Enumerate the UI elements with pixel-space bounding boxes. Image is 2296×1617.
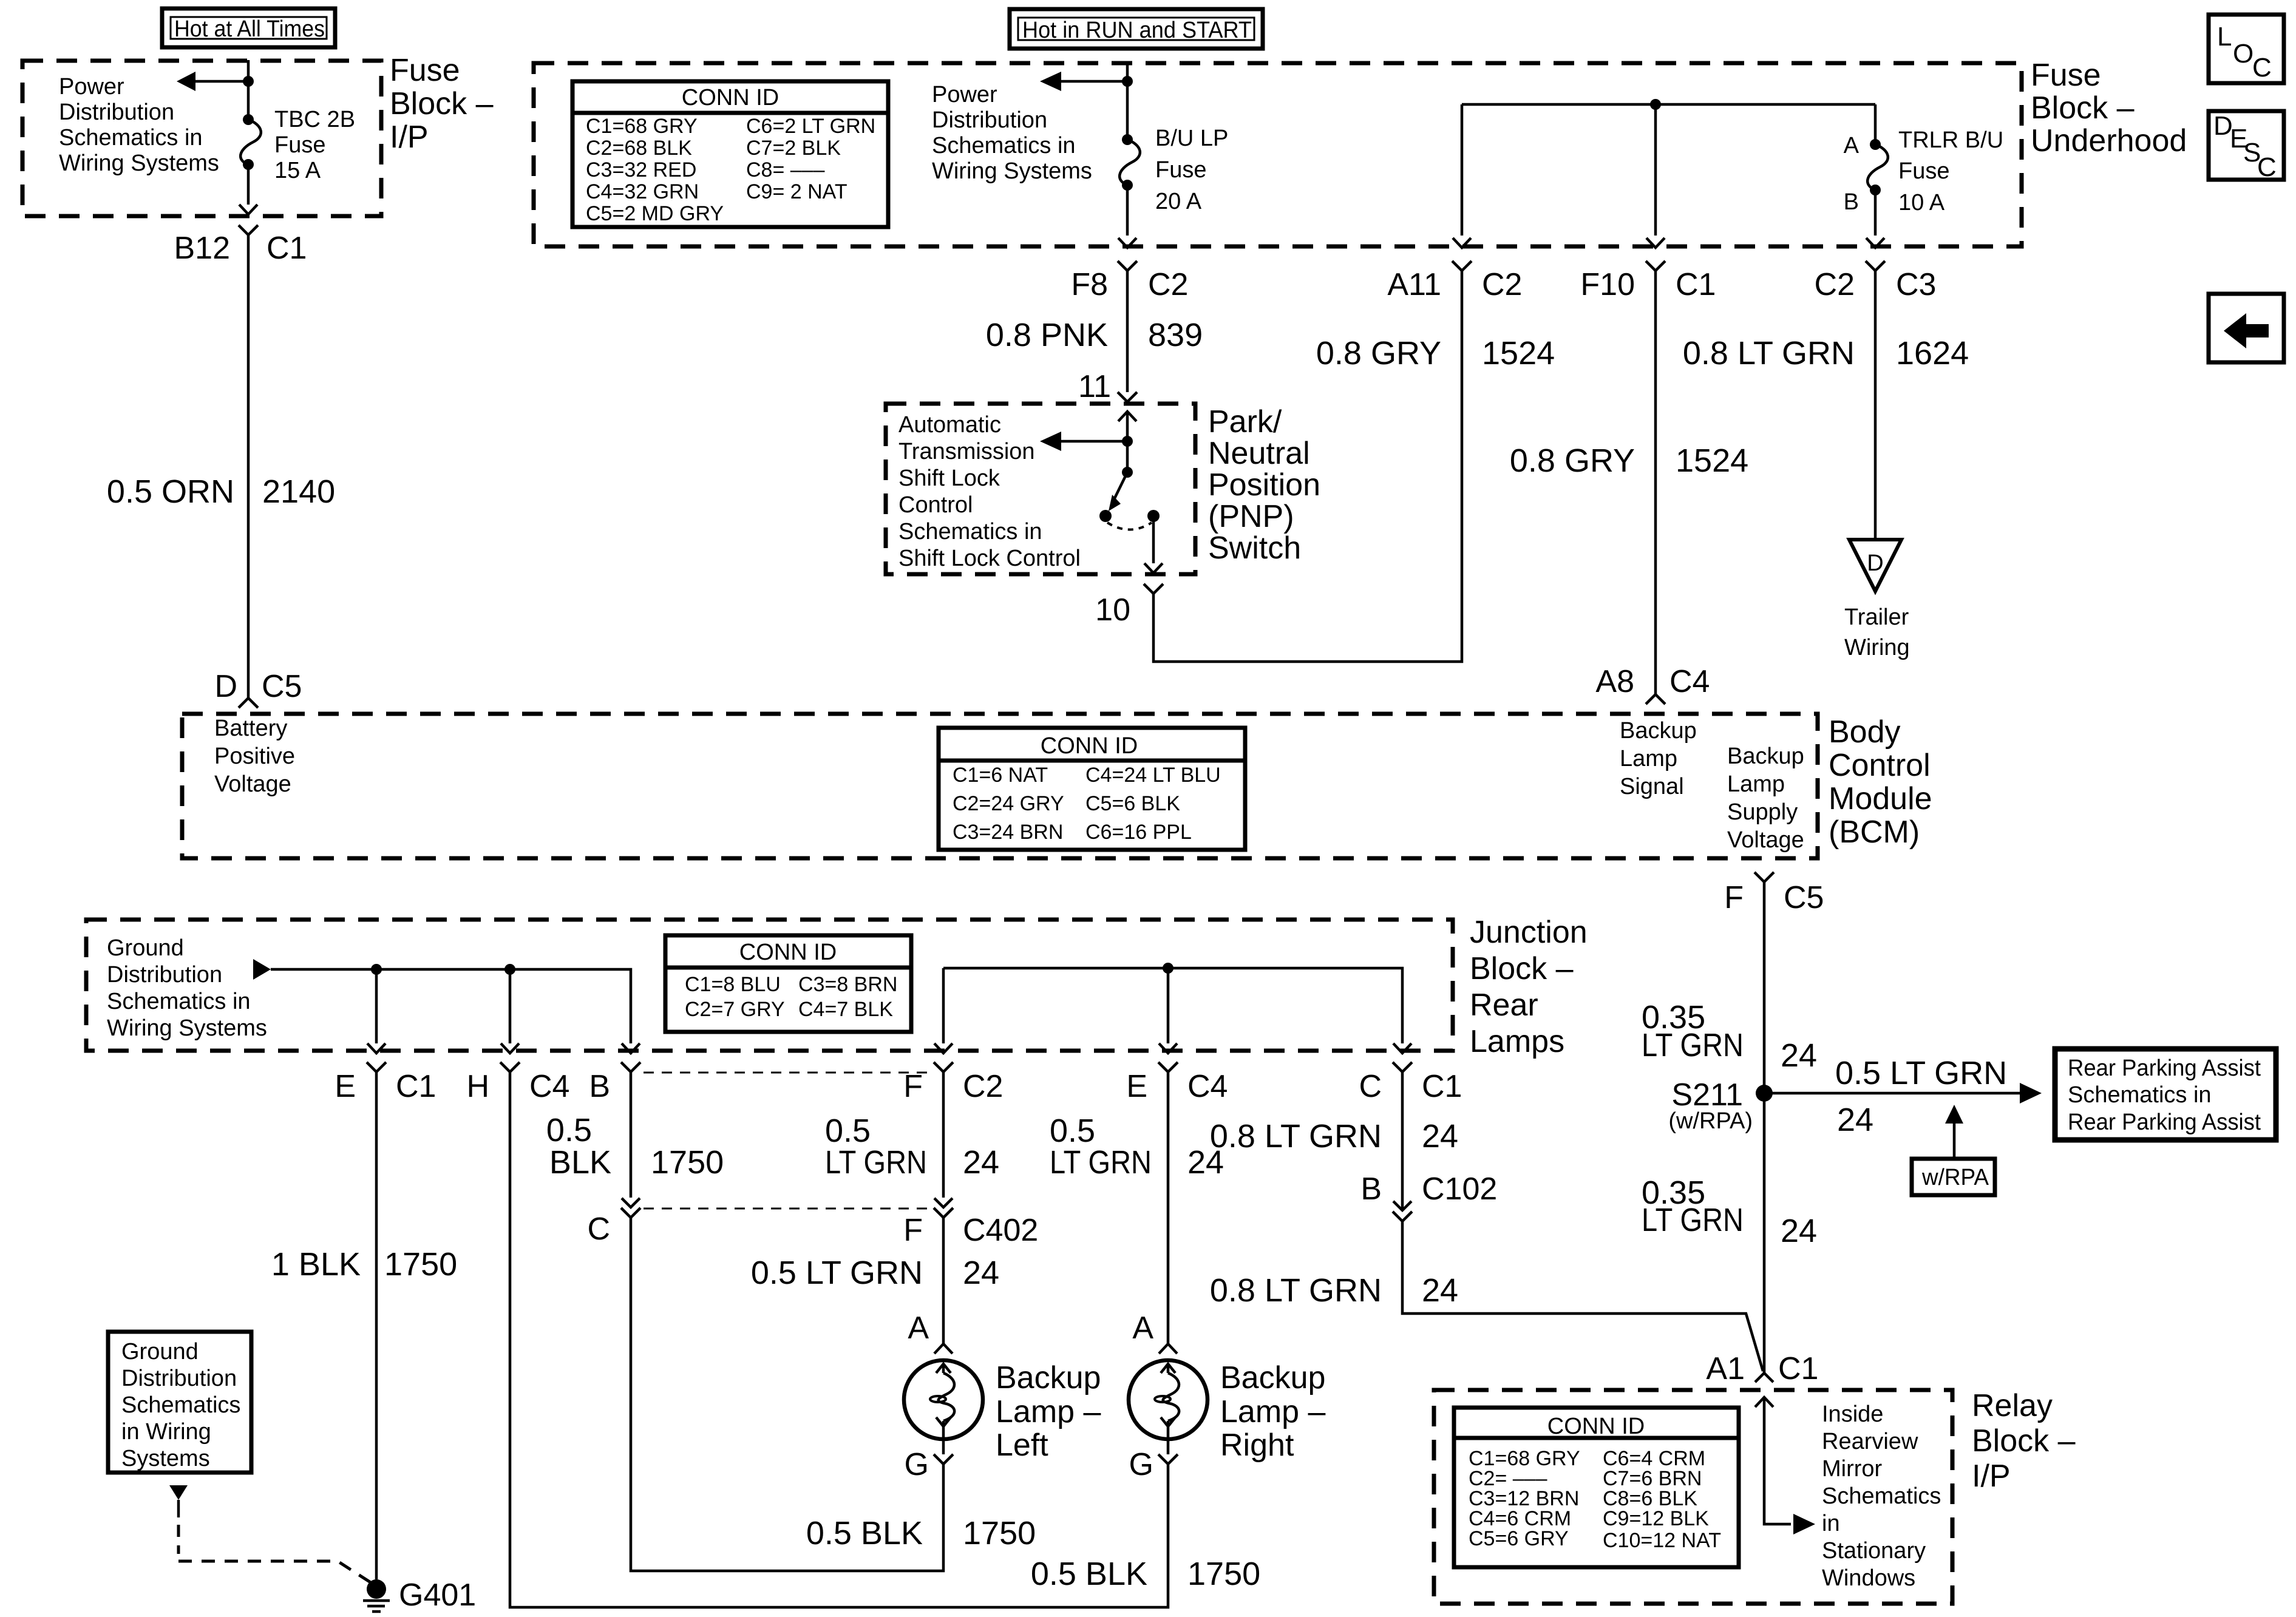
wire dashed ground reference [178,1500,372,1583]
svg-text:Automatic: Automatic [898,412,1001,438]
svg-text:C10=12 NAT: C10=12 NAT [1603,1529,1721,1552]
svg-text:0.5 BLK: 0.5 BLK [806,1515,923,1551]
svg-text:C9= 2 NAT: C9= 2 NAT [746,180,847,203]
svg-text:O: O [2233,39,2254,69]
svg-text:11: 11 [1078,369,1111,404]
svg-text:I/P: I/P [1972,1459,2011,1494]
wire arrow to power distribution (underhood) [1040,72,1127,91]
svg-text:Fuse: Fuse [2031,58,2101,93]
fuse TBC 2B 15A [240,81,261,205]
svg-text:Block –: Block – [390,86,494,121]
svg-text:Rear Parking Assist: Rear Parking Assist [2068,1056,2261,1081]
svg-text:A11: A11 [1387,267,1441,302]
svg-text:A: A [1844,133,1860,158]
svg-text:LT GRN: LT GRN [1642,1202,1744,1238]
wire F/C402 to left lamp [942,1218,945,1344]
note Power Distribution Schematics (I/P) [59,74,219,176]
connector D / C5 [214,669,302,708]
svg-text:Rearview: Rearview [1822,1429,1918,1454]
CONN ID table (BCM) [939,728,1245,850]
svg-text:C5: C5 [1784,880,1824,915]
svg-text:Wiring Systems: Wiring Systems [59,151,219,176]
svg-text:CONN ID: CONN ID [1041,733,1138,759]
svg-text:Schematics in: Schematics in [107,989,251,1014]
label Fuse Block - Underhood [2031,58,2187,158]
svg-text:LT GRN: LT GRN [1050,1144,1152,1181]
svg-text:Block –: Block – [1972,1423,2076,1459]
svg-text:G401: G401 [399,1578,476,1613]
wire F10 drop [1654,104,1657,236]
node S211 splice dot [1756,1085,1773,1102]
svg-text:Hot in RUN and START: Hot in RUN and START [1022,18,1252,43]
wire ground bus [271,969,631,1043]
connector A1 / C1 [1706,1351,1818,1386]
arrow exiting junction at H [501,1043,519,1053]
svg-text:Backup: Backup [1220,1360,1325,1395]
value label 0.5 BLK 1750 (right lamp) [1031,1556,1260,1592]
node junction dot on B/U LP feed [1122,76,1133,87]
label Backup Lamp - Right [1220,1360,1326,1463]
svg-text:Control: Control [898,492,973,518]
wire B/C102 to A1/C1 [1402,1221,1763,1371]
wire pin10 to A11 riser [1153,271,1462,662]
svg-text:Schematics: Schematics [1822,1483,1941,1509]
svg-text:Distribution: Distribution [932,107,1047,133]
fuse B/U LP 20A [1119,81,1140,236]
value label B/U LP Fuse 20 A [1155,126,1228,214]
connector B12 / C1 [174,225,307,266]
svg-text:Relay: Relay [1972,1388,2053,1423]
svg-text:D: D [1867,551,1883,576]
svg-text:C7=2 BLK: C7=2 BLK [746,137,841,160]
svg-text:C: C [587,1212,610,1247]
svg-text:24: 24 [1781,1213,1817,1249]
svg-text:C1: C1 [1676,267,1716,302]
svg-text:Positive: Positive [214,744,295,769]
svg-text:B: B [589,1069,610,1104]
arrow exiting fuse block I/P [239,205,257,214]
connector F / C2 (junction out) [903,1062,1003,1104]
svg-text:C: C [2257,152,2277,182]
svg-text:Left: Left [996,1428,1048,1463]
connector pin 10 [1144,584,1163,594]
arrow exiting junction at B [622,1043,640,1053]
svg-text:TRLR B/U: TRLR B/U [1898,127,2003,153]
svg-text:C6=2 LT GRN: C6=2 LT GRN [746,115,875,138]
wire 0.5 ORN 2140 (B12 to BCM D/C5) [247,235,250,698]
arrow w/RPA flag [1945,1105,1963,1159]
CONN ID table (relay block) [1454,1408,1739,1567]
svg-text:10: 10 [1095,592,1130,628]
node junction dot in PNP [1122,436,1133,447]
svg-text:0.5: 0.5 [1050,1113,1095,1149]
svg-text:F: F [1724,880,1744,915]
svg-text:1 BLK: 1 BLK [271,1246,361,1283]
value label 0.8 LT GRN 24 (upper) [1210,1118,1458,1154]
svg-text:Lamp –: Lamp – [1220,1394,1326,1429]
fuse TRLR B/U 10A [1867,104,1888,236]
svg-text:20 A: 20 A [1155,189,1202,214]
harness dashed line at C row [644,1208,935,1210]
connector C2 / C3 [1815,261,1937,302]
svg-text:0.5 LT GRN: 0.5 LT GRN [751,1255,923,1291]
connector F8 / C2 [1071,261,1188,302]
arrow exiting junction at F/C2 [934,1043,953,1053]
connector F / C5 [1724,872,1824,915]
box Ground Distribution Schematics [108,1332,251,1473]
svg-text:(BCM): (BCM) [1829,815,1920,850]
fuse block I/P dashed box [22,61,381,216]
wire B to C connector [630,1072,633,1198]
arrow triangle ground feed [253,959,271,980]
svg-text:Hot at All Times: Hot at All Times [174,16,325,42]
relay block I/P dashed box [1434,1390,1952,1604]
value label 0.8 GRY 1524 (A11) [1316,335,1555,371]
value label TRLR B/U Fuse 10 A [1898,127,2003,215]
value label 0.35 LT GRN 24 (lower) [1642,1175,1817,1249]
svg-text:1750: 1750 [384,1246,457,1283]
svg-text:Shift Lock Control: Shift Lock Control [898,546,1081,571]
svg-text:G: G [1129,1447,1153,1482]
svg-text:C8= –––: C8= ––– [746,158,825,181]
svg-text:C6=16 PPL: C6=16 PPL [1085,821,1192,844]
svg-text:F: F [903,1069,923,1104]
label Backup Lamp - Left [996,1360,1101,1463]
box Rear Parking Assist [2055,1049,2276,1140]
ground G401 [363,1579,390,1612]
node bus junction dot [1650,99,1661,110]
svg-text:A: A [1132,1310,1153,1346]
wire H/C4 ground from right lamp [510,1072,1168,1607]
svg-text:E: E [335,1069,356,1104]
backup lamp right [1129,1360,1207,1439]
svg-text:Distribution: Distribution [59,100,174,125]
svg-text:C4=32 GRN: C4=32 GRN [586,180,699,203]
svg-text:Fuse: Fuse [390,53,460,88]
value label TBC 2B Fuse 15 A [274,107,355,183]
wire F/C2 drop [942,968,945,1043]
svg-text:839: 839 [1148,317,1203,353]
svg-text:10 A: 10 A [1898,190,1945,215]
svg-text:CONN ID: CONN ID [1547,1414,1645,1439]
svg-text:Underhood: Underhood [2031,123,2187,158]
value label 0.5 ORN 2140 [107,473,335,510]
switch PNP pivot [1109,441,1133,511]
connector B [589,1062,640,1104]
wire 0.8 LT GRN 1624 [1874,271,1877,538]
svg-text:Wiring Systems: Wiring Systems [932,158,1092,184]
svg-text:C3=8 BRN: C3=8 BRN [798,973,897,996]
connector A8 / C4 [1595,664,1710,704]
svg-text:Wiring: Wiring [1844,635,1910,660]
svg-text:Schematics: Schematics [121,1392,240,1418]
note Ground Distribution Schematics (junction block) [107,935,267,1041]
connector A left lamp [908,1310,953,1354]
svg-text:24: 24 [1422,1118,1458,1154]
value label 0.8 LT GRN 1624 [1683,335,1969,371]
svg-text:C1: C1 [396,1069,436,1104]
connector C / C1 (junction out) [1359,1062,1462,1104]
svg-text:15 A: 15 A [274,158,321,183]
svg-text:24: 24 [963,1255,999,1291]
arrow entering relay block [1755,1397,1815,1534]
svg-text:C1: C1 [1778,1351,1818,1386]
svg-text:1750: 1750 [651,1144,724,1181]
wire from Hot at All Times into fuse block [247,60,250,81]
svg-text:Power: Power [59,74,124,100]
wire E drop [375,969,378,1043]
svg-text:H: H [466,1069,489,1104]
connector G right lamp [1129,1439,1178,1482]
PNP switch dashed box [886,404,1195,574]
svg-text:C3: C3 [1896,267,1936,302]
value label 0.5 LT GRN 24 (right lamp) [1050,1113,1224,1181]
connector A11 / C2 [1387,261,1522,302]
svg-text:C2: C2 [963,1069,1003,1104]
label Relay Block - I/P [1972,1388,2076,1494]
svg-text:Ground: Ground [107,935,184,961]
svg-text:Right: Right [1220,1428,1294,1463]
connector G left lamp [905,1439,953,1482]
svg-text:Module: Module [1829,781,1932,816]
fuse block underhood dashed box [534,63,2022,246]
svg-text:24: 24 [1781,1037,1817,1074]
svg-text:C5=6 BLK: C5=6 BLK [1085,792,1180,815]
svg-text:Block –: Block – [2031,90,2135,126]
svg-text:0.8 LT GRN: 0.8 LT GRN [1210,1272,1382,1309]
svg-text:Signal: Signal [1620,774,1684,799]
svg-text:1624: 1624 [1896,335,1969,371]
svg-text:Position: Position [1208,467,1320,503]
svg-text:(w/RPA): (w/RPA) [1668,1108,1753,1134]
svg-text:Windows: Windows [1822,1565,1915,1591]
label Trailer Wiring [1844,605,1910,660]
svg-text:Power: Power [932,82,997,107]
svg-text:Rear: Rear [1470,988,1538,1023]
label Junction Block - Rear Lamps [1470,915,1588,1059]
svg-text:Voltage: Voltage [214,771,291,797]
svg-text:24: 24 [1837,1102,1873,1138]
wire arrow to power distribution [177,72,248,91]
svg-text:C102: C102 [1422,1171,1497,1207]
svg-text:in: in [1822,1511,1840,1536]
svg-text:1524: 1524 [1482,335,1555,371]
svg-text:Rear Parking Assist: Rear Parking Assist [2068,1110,2261,1135]
box w/RPA [1912,1159,1995,1195]
switch contact dots [1099,510,1112,522]
wire 0.8 PNK 839 [1126,271,1129,392]
svg-text:Junction: Junction [1470,915,1588,950]
svg-text:Voltage: Voltage [1727,827,1804,853]
svg-text:C1: C1 [267,231,307,266]
note Automatic Transmission Shift Lock Control [898,412,1081,571]
svg-text:D: D [214,669,237,704]
svg-text:C3=24 BRN: C3=24 BRN [953,821,1063,844]
svg-text:C: C [2252,53,2272,83]
CONN ID table (junction block) [665,935,911,1032]
svg-text:C2: C2 [1815,267,1855,302]
value label 0.8 LT GRN 24 (lower) [1210,1272,1458,1309]
connector A right lamp [1132,1310,1177,1354]
svg-text:Schematics in: Schematics in [59,125,203,151]
svg-text:Backup: Backup [1727,744,1804,769]
svg-text:C5=6 GRY: C5=6 GRY [1469,1527,1569,1550]
value label 0.5 BLK 1750 (B wire) [546,1112,724,1181]
svg-text:Backup: Backup [996,1360,1101,1395]
svg-text:F10: F10 [1580,267,1635,302]
svg-text:Schematics in: Schematics in [932,133,1076,158]
svg-text:Block –: Block – [1470,951,1574,986]
svg-text:Trailer: Trailer [1844,605,1909,630]
svg-text:(PNP): (PNP) [1208,499,1294,534]
wire from Hot in RUN and START [1126,63,1129,81]
value label 0.8 GRY 1524 (F10) [1510,442,1748,479]
label box Hot in RUN and START [1010,9,1263,49]
connector F10 / C1 [1580,261,1716,302]
svg-text:B: B [1844,189,1859,215]
svg-text:C4=24 LT BLU: C4=24 LT BLU [1085,764,1221,787]
svg-text:E: E [1126,1069,1147,1104]
node dot E drop [371,964,382,975]
svg-text:0.8 LT GRN: 0.8 LT GRN [1210,1118,1382,1154]
arrow exiting junction at C/C1 [1393,1043,1411,1053]
wire underhood bus [1462,103,1875,106]
wire left lamp ground loop [631,1218,943,1571]
wire 0.8 GRY 1524 (F10 to A8) [1654,271,1657,694]
svg-text:S211: S211 [1671,1077,1743,1113]
svg-text:0.8 GRY: 0.8 GRY [1510,442,1635,479]
arrow entering PNP switch [1118,412,1136,441]
note Inside Rearview Mirror Schematics [1822,1402,1941,1591]
svg-text:Fuse: Fuse [1898,158,1949,184]
svg-text:F8: F8 [1071,267,1108,302]
svg-text:Schematics in: Schematics in [898,519,1042,544]
svg-text:LT GRN: LT GRN [1642,1027,1744,1063]
connector C (inline C402) [587,1198,640,1247]
svg-text:Lamp: Lamp [1620,746,1677,771]
svg-text:B/U LP: B/U LP [1155,126,1228,151]
svg-text:Transmission: Transmission [898,439,1035,464]
svg-text:F: F [903,1213,923,1248]
svg-text:L: L [2217,22,2232,52]
svg-text:w/RPA: w/RPA [1921,1165,1989,1190]
svg-text:Neutral: Neutral [1208,436,1310,471]
arrow exiting junction at E/C4 [1159,1043,1177,1053]
svg-text:C4: C4 [1187,1069,1228,1104]
connector E / C4 (junction out) [1126,1062,1228,1104]
svg-text:Body: Body [1829,714,1901,750]
svg-text:C3=32 RED: C3=32 RED [586,158,696,181]
svg-text:C2=24 GRY: C2=24 GRY [953,792,1064,815]
wire C/C1 to B/C102 [1401,1072,1404,1210]
arrow entering underhood box at A11 riser [1453,238,1471,248]
value label 0.5 LT GRN 24 (RPA) [1835,1055,2007,1138]
svg-text:Control: Control [1829,748,1931,783]
svg-text:C2: C2 [1148,267,1188,302]
svg-text:C2=68 BLK: C2=68 BLK [586,137,692,160]
svg-text:Fuse: Fuse [1155,157,1206,183]
value label 0.35 LT GRN 24 (upper) [1642,999,1817,1074]
connector H / C4 [466,1062,569,1104]
value label 0.5 LT GRN 24 (upper left lamp) [825,1113,999,1181]
arrow exiting underhood at C2 [1866,238,1884,248]
svg-text:Fuse: Fuse [274,132,325,158]
svg-text:C9=12 BLK: C9=12 BLK [1603,1507,1709,1530]
harness dashed line at B row [644,1072,935,1074]
svg-text:A1: A1 [1706,1351,1745,1386]
svg-text:G: G [905,1447,929,1482]
wire F/C2 to F/C402 [942,1072,945,1198]
svg-text:0.8 GRY: 0.8 GRY [1316,335,1441,371]
svg-text:0.5 BLK: 0.5 BLK [1031,1556,1147,1592]
svg-text:I/P: I/P [390,120,429,155]
back arrow box [2209,294,2284,362]
svg-text:TBC 2B: TBC 2B [274,107,355,132]
arrow triangle below ground box [169,1485,188,1500]
svg-text:0.5: 0.5 [546,1112,592,1148]
value label 0.8 PNK 839 [986,317,1203,353]
svg-text:A8: A8 [1595,664,1634,699]
wire E/C1 ground to G401 [375,1072,378,1579]
note Backup Lamp Signal [1620,718,1697,799]
svg-text:Switch: Switch [1208,531,1301,566]
svg-text:Ground: Ground [121,1339,199,1364]
backup lamp left [904,1360,983,1439]
svg-text:Lamp –: Lamp – [996,1394,1101,1429]
svg-text:Inside: Inside [1822,1402,1883,1427]
label Body Control Module (BCM) [1829,714,1932,850]
value label 1 BLK 1750 [271,1246,457,1283]
svg-text:Schematics in: Schematics in [2068,1082,2212,1108]
BCM dashed box [182,714,1818,858]
value label 0.5 BLK 1750 (left lamp) [806,1515,1036,1551]
svg-text:C2: C2 [1482,267,1522,302]
svg-text:LT GRN: LT GRN [825,1144,927,1181]
svg-text:B: B [1360,1171,1382,1207]
svg-text:1524: 1524 [1676,442,1748,479]
connector E / C1 [335,1062,436,1104]
connector F / C402 (inline) [903,1198,1038,1248]
arrow exiting PNP at pin 10 [1144,563,1163,573]
DESC box [2209,111,2284,182]
CONN ID table (fuse block underhood) [572,81,888,227]
svg-text:1750: 1750 [963,1515,1036,1551]
svg-text:C402: C402 [963,1213,1038,1248]
svg-text:0.5 ORN: 0.5 ORN [107,473,234,510]
svg-text:C1=68 GRY: C1=68 GRY [586,115,698,138]
svg-text:24: 24 [963,1144,999,1181]
svg-text:Shift Lock: Shift Lock [898,466,1000,491]
arrow exiting underhood at F10 [1646,238,1665,248]
svg-text:CONN ID: CONN ID [739,940,837,965]
svg-text:B12: B12 [174,231,230,266]
arrow exiting underhood at F8 [1118,238,1136,248]
label box Hot at All Times [162,8,335,47]
off-page triangle D trailer wiring [1849,540,1901,591]
wire S211 down to A1/C1 [1763,1093,1766,1373]
note Backup Lamp Supply Voltage [1727,744,1804,853]
wire E/C4 drop [1167,968,1170,1043]
svg-text:Mirror: Mirror [1822,1456,1883,1482]
svg-text:0.5: 0.5 [825,1113,871,1149]
svg-text:24: 24 [1422,1272,1458,1309]
svg-text:1750: 1750 [1187,1556,1260,1592]
svg-text:Lamp: Lamp [1727,771,1785,797]
wire arrow to shift lock control [1040,432,1127,451]
note Battery Positive Voltage [214,716,295,797]
wire pin 10 inside PNP [1152,516,1155,563]
svg-text:C: C [1359,1069,1382,1104]
